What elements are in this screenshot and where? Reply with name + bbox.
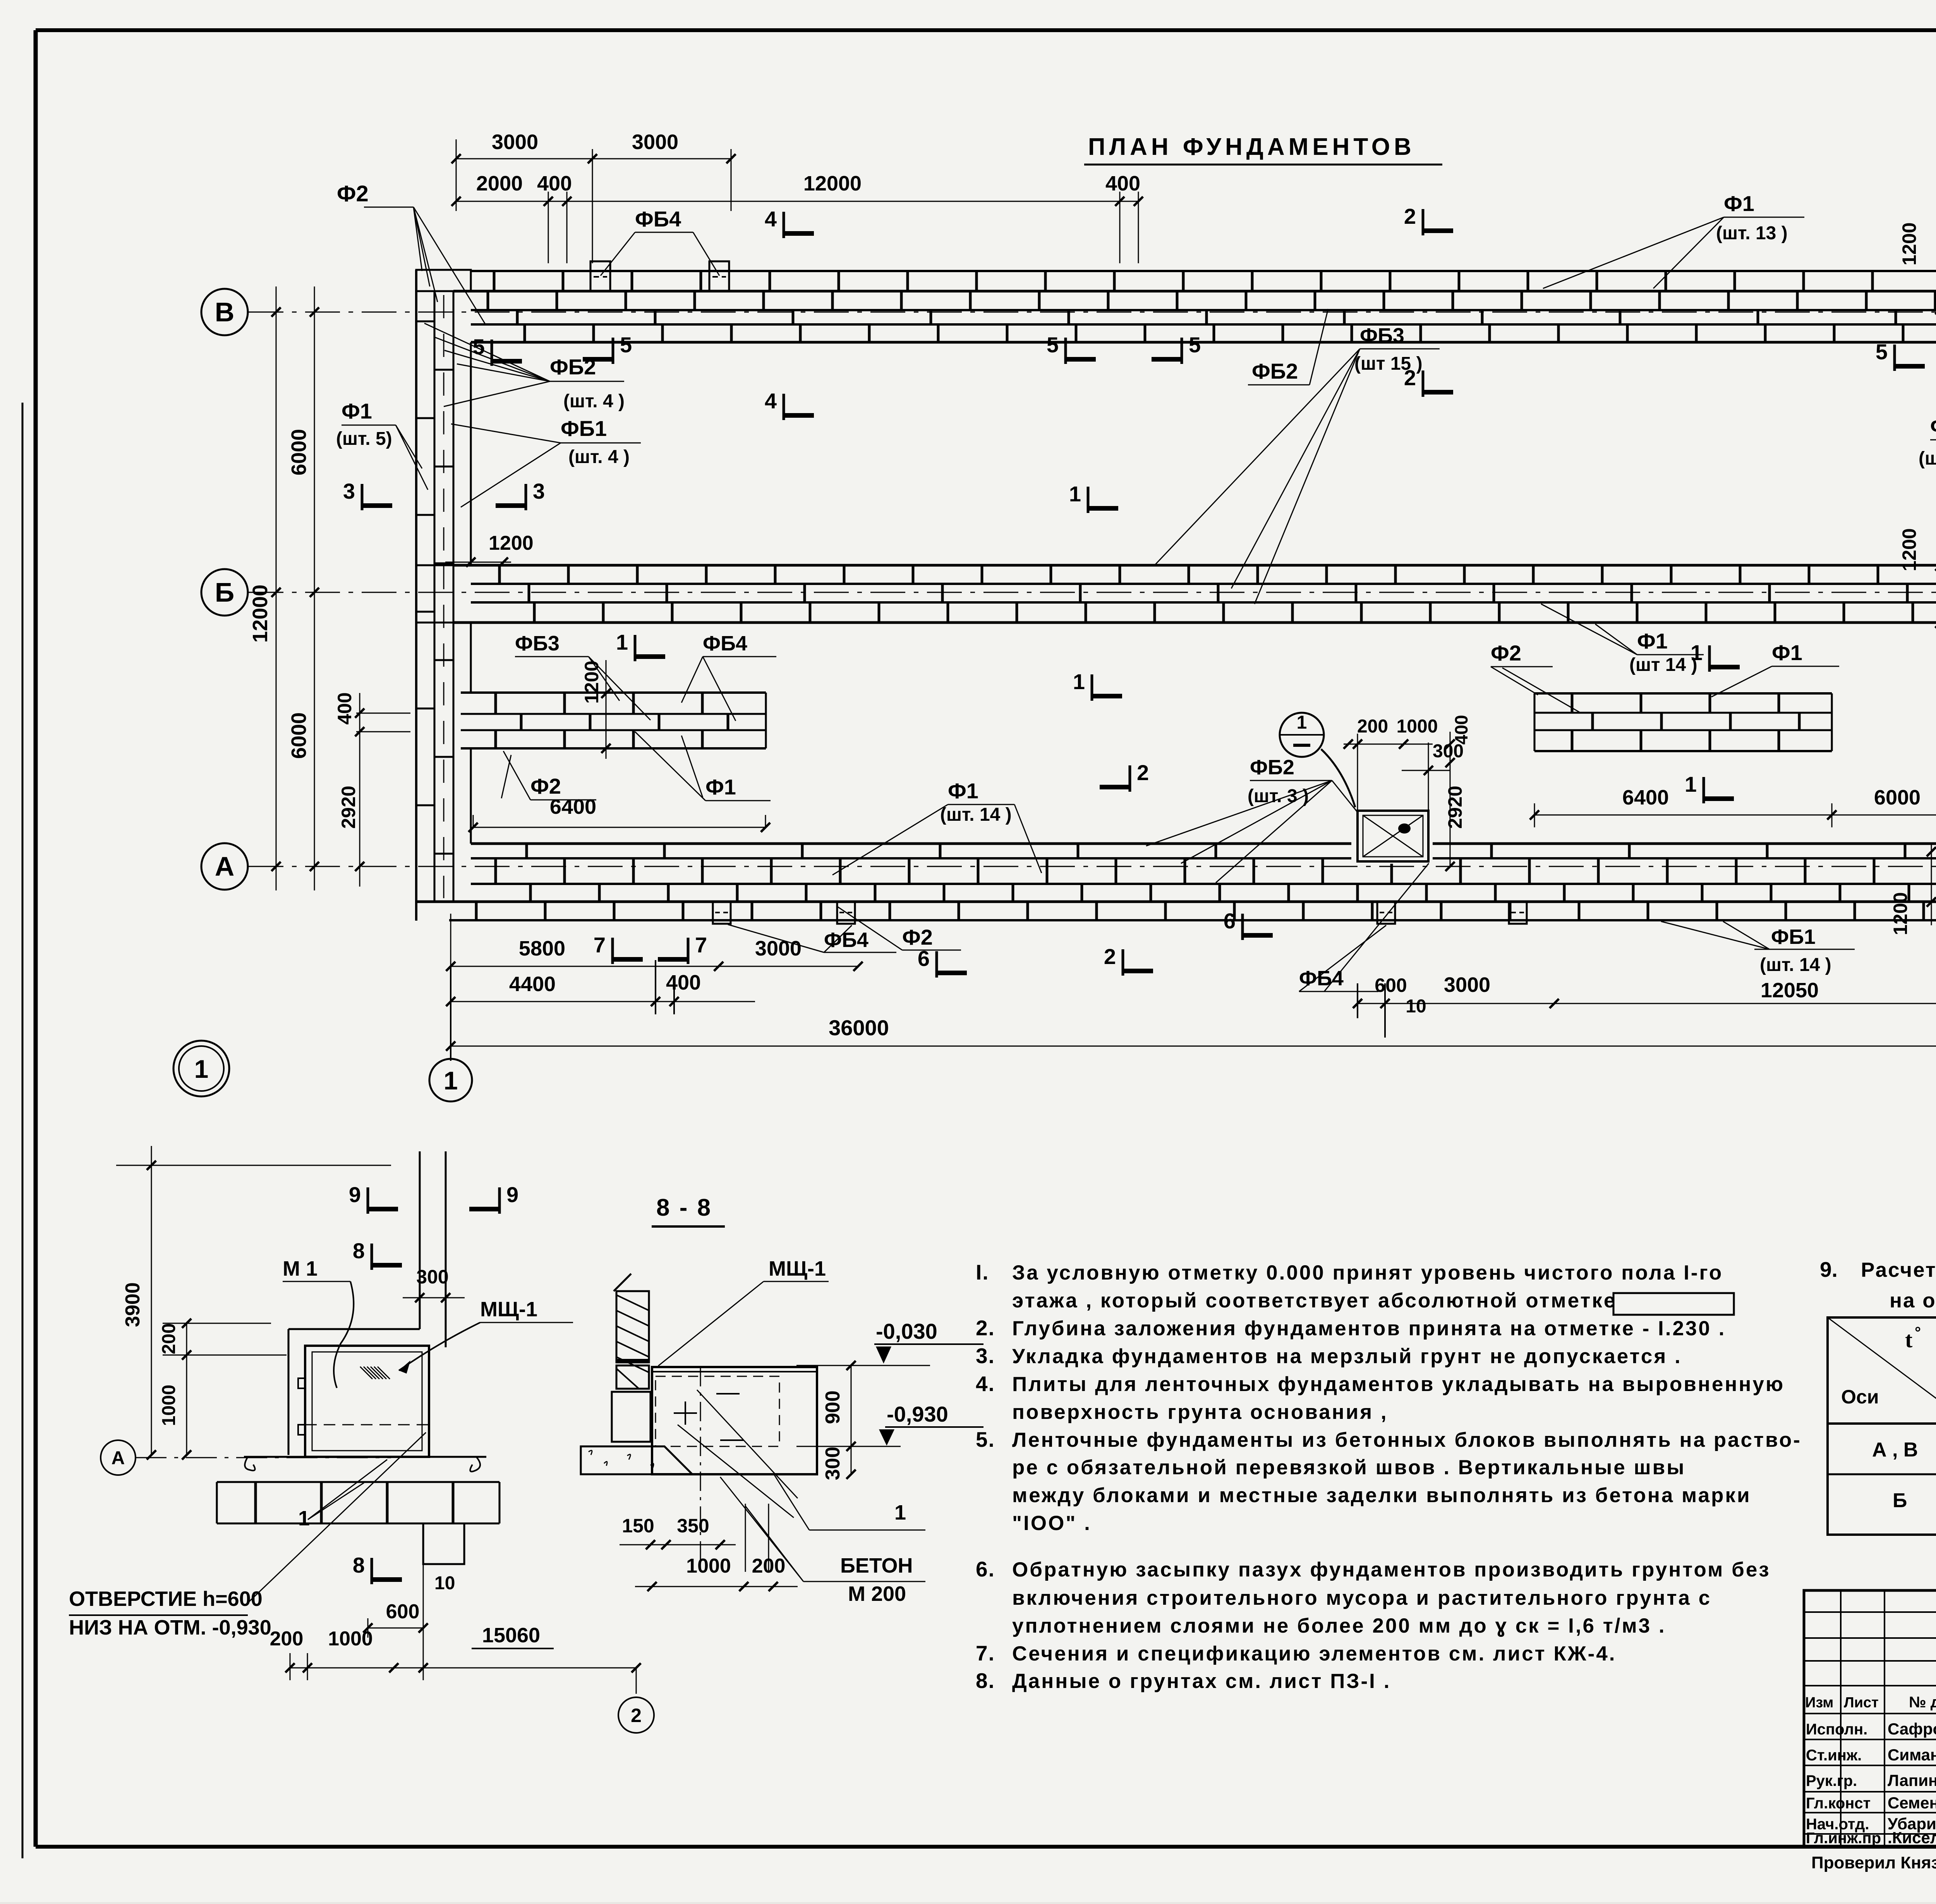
svg-text:между блоками и местные заделк: между блоками и местные заделки выполнят… — [1012, 1484, 1751, 1507]
svg-text:2: 2 — [1137, 760, 1149, 785]
svg-text:ФБ3: ФБ3 — [1360, 324, 1404, 347]
svg-text:1200: 1200 — [489, 532, 534, 554]
svg-text:36000: 36000 — [829, 1015, 889, 1040]
svg-text:Ф2: Ф2 — [1491, 641, 1521, 665]
svg-text:5.: 5. — [976, 1427, 995, 1451]
svg-text:2920: 2920 — [1444, 786, 1466, 828]
svg-text:4: 4 — [765, 207, 777, 231]
svg-text:6: 6 — [1224, 909, 1236, 933]
svg-text:НИЗ НА ОТМ. -0,930: НИЗ НА ОТМ. -0,930 — [69, 1616, 271, 1639]
svg-text:400: 400 — [1105, 172, 1140, 195]
svg-text:Изм: Изм — [1805, 1695, 1833, 1711]
svg-text:600: 600 — [1375, 974, 1407, 996]
svg-text:ФБ2: ФБ2 — [1250, 756, 1294, 779]
svg-text:ФБ2: ФБ2 — [1252, 359, 1298, 383]
svg-text:Рук.гр.: Рук.гр. — [1806, 1772, 1857, 1789]
svg-text:Глубина заложения фундаментов: Глубина заложения фундаментов принята на… — [1012, 1317, 1726, 1340]
svg-text:3.: 3. — [976, 1344, 995, 1368]
svg-text:Лапина: Лапина — [1888, 1771, 1936, 1789]
svg-text:Ф1: Ф1 — [1724, 191, 1754, 216]
svg-text:этажа , который соответствует: этажа , который соответствует абсолютной… — [1012, 1289, 1617, 1312]
svg-text:7.: 7. — [976, 1641, 995, 1665]
svg-text:уплотнением слоями не более 20: уплотнением слоями не более 200 мм до ɣ … — [1012, 1614, 1666, 1637]
svg-text:Проверил Князева: Проверил Князева — [1811, 1853, 1936, 1872]
svg-text:4.: 4. — [976, 1372, 995, 1396]
svg-text:(шт 5): (шт 5) — [1919, 448, 1936, 469]
svg-text:Семенов: Семенов — [1888, 1794, 1936, 1812]
svg-text:350: 350 — [677, 1515, 709, 1537]
svg-text:Укладка фундаментов на мерзлый: Укладка фундаментов на мерзлый грунт не … — [1012, 1345, 1682, 1368]
svg-text:600: 600 — [386, 1600, 420, 1623]
svg-text:12050: 12050 — [1761, 979, 1819, 1002]
svg-text:1: 1 — [1685, 772, 1697, 796]
svg-text:300: 300 — [822, 1447, 844, 1480]
svg-text:Ф1: Ф1 — [1637, 629, 1668, 653]
svg-text:М 1: М 1 — [283, 1257, 318, 1280]
svg-text:1: 1 — [616, 630, 628, 654]
svg-text:на отм. -0.33 принята :: на отм. -0.33 принята : — [1890, 1289, 1936, 1312]
svg-text:А: А — [215, 851, 235, 882]
svg-text:1: 1 — [444, 1066, 458, 1095]
svg-text:Ф1: Ф1 — [342, 399, 372, 423]
svg-text:ФБ1: ФБ1 — [1771, 925, 1816, 949]
svg-text:5: 5 — [1189, 333, 1201, 357]
svg-text:1000: 1000 — [686, 1555, 731, 1577]
svg-text:200: 200 — [1357, 716, 1388, 737]
svg-text:ФБ1: ФБ1 — [561, 416, 607, 441]
svg-text:7: 7 — [695, 933, 707, 957]
svg-text:ПЛАН ФУНДАМЕНТОВ: ПЛАН ФУНДАМЕНТОВ — [1088, 134, 1415, 160]
svg-text:включения строительного мусора: включения строительного мусора и растите… — [1012, 1587, 1711, 1609]
svg-text:Оси: Оси — [1841, 1386, 1879, 1408]
svg-text:12000: 12000 — [803, 172, 862, 195]
svg-text:5: 5 — [620, 333, 632, 357]
svg-text:МЩ-1: МЩ-1 — [769, 1257, 826, 1280]
svg-text:8: 8 — [353, 1238, 365, 1263]
svg-text:Ф2: Ф2 — [902, 925, 933, 949]
svg-text:4: 4 — [765, 389, 777, 413]
svg-text:15060: 15060 — [482, 1624, 540, 1647]
svg-text:(шт. 14 ): (шт. 14 ) — [1760, 955, 1831, 975]
svg-text:Обратную засыпку пазух фундаме: Обратную засыпку пазух фундаментов произ… — [1012, 1558, 1771, 1581]
svg-text:1200: 1200 — [1898, 528, 1920, 571]
svg-text:I.: I. — [976, 1260, 989, 1284]
svg-text:2: 2 — [631, 1705, 642, 1726]
svg-text:1000: 1000 — [159, 1385, 179, 1426]
svg-text:2000: 2000 — [476, 172, 523, 195]
svg-text:6.: 6. — [976, 1557, 995, 1581]
svg-text:Ф1: Ф1 — [948, 779, 978, 803]
svg-text:МЩ-1: МЩ-1 — [480, 1298, 537, 1321]
svg-text:3900: 3900 — [122, 1282, 144, 1327]
svg-text:Плиты для ленточных фундаменто: Плиты для ленточных фундаментов укладыва… — [1012, 1373, 1785, 1396]
svg-text:№ докум.: № докум. — [1909, 1694, 1936, 1711]
svg-text:-0,030: -0,030 — [876, 1319, 937, 1343]
svg-text:9: 9 — [349, 1182, 361, 1207]
svg-text:6400: 6400 — [550, 795, 596, 818]
svg-text:5: 5 — [1047, 333, 1059, 357]
svg-text:1: 1 — [1069, 482, 1081, 506]
svg-text:400: 400 — [334, 692, 355, 724]
svg-text:Б: Б — [215, 577, 234, 607]
svg-text:1200: 1200 — [1890, 892, 1911, 935]
svg-text:1: 1 — [1297, 712, 1307, 733]
svg-text:9: 9 — [506, 1182, 518, 1207]
svg-text:1: 1 — [194, 1055, 209, 1083]
svg-text:ФБ4: ФБ4 — [703, 632, 747, 655]
svg-text:10: 10 — [434, 1573, 455, 1594]
svg-text:6400: 6400 — [1622, 786, 1669, 809]
svg-text:400: 400 — [1451, 715, 1471, 745]
svg-text:5800: 5800 — [519, 937, 565, 960]
svg-text:Б: Б — [1893, 1489, 1907, 1512]
svg-text:200: 200 — [159, 1323, 179, 1354]
svg-text:6000: 6000 — [1874, 786, 1921, 809]
svg-text:ОТВЕРСТИЕ h=600: ОТВЕРСТИЕ h=600 — [69, 1587, 263, 1611]
svg-text:1: 1 — [894, 1501, 906, 1524]
svg-text:6000: 6000 — [287, 429, 311, 475]
svg-text:3000: 3000 — [755, 937, 802, 960]
svg-text:3000: 3000 — [492, 130, 538, 154]
svg-text:Ф2: Ф2 — [337, 181, 369, 206]
svg-text:поверхность грунта основания: поверхность грунта основания , — [1012, 1401, 1388, 1424]
svg-text:А: А — [112, 1448, 125, 1468]
svg-text:ре с обязательной перевязкой ш: ре с обязательной перевязкой швов . Верт… — [1012, 1456, 1686, 1479]
svg-text:Ст.инж.: Ст.инж. — [1806, 1747, 1862, 1764]
svg-text:1200: 1200 — [581, 660, 602, 703]
svg-text:t: t — [1905, 1327, 1913, 1352]
svg-text:3: 3 — [533, 479, 545, 503]
svg-text:-0,930: -0,930 — [887, 1402, 948, 1426]
svg-text:(шт. 13 ): (шт. 13 ) — [1716, 223, 1788, 244]
svg-text:(шт. 4 ): (шт. 4 ) — [568, 447, 630, 467]
svg-text:10: 10 — [1406, 996, 1426, 1017]
svg-text:900: 900 — [822, 1391, 844, 1424]
svg-text:(шт. 3 ): (шт. 3 ) — [1248, 786, 1309, 806]
svg-text:Ф2: Ф2 — [530, 774, 561, 798]
svg-text:ФБ2: ФБ2 — [550, 355, 596, 379]
svg-text:Лист: Лист — [1844, 1695, 1879, 1711]
svg-text:1: 1 — [1073, 669, 1085, 694]
svg-text:(шт. 4 ): (шт. 4 ) — [563, 391, 625, 412]
svg-text:Сафронеева: Сафронеева — [1888, 1720, 1936, 1738]
svg-text:Сечения и спецификацию элемент: Сечения и спецификацию элементов см. лис… — [1012, 1642, 1616, 1665]
svg-text:3: 3 — [343, 479, 355, 503]
svg-text:Симановская: Симановская — [1888, 1746, 1936, 1764]
svg-text:Гл.инж.пр: Гл.инж.пр — [1806, 1830, 1881, 1847]
svg-text:2.: 2. — [976, 1316, 995, 1340]
svg-text:2920: 2920 — [338, 786, 359, 828]
svg-text:ФБ3: ФБ3 — [515, 632, 560, 655]
svg-text:БЕТОН: БЕТОН — [840, 1554, 913, 1577]
svg-text:8: 8 — [353, 1553, 365, 1577]
svg-text:300: 300 — [416, 1266, 448, 1288]
svg-text:Расчетная нагрузка на фундамен: Расчетная нагрузка на фундаменты при рас… — [1861, 1259, 1936, 1281]
svg-text:В: В — [215, 297, 235, 327]
svg-text:°: ° — [1915, 1324, 1921, 1341]
svg-text:А , В: А , В — [1872, 1439, 1918, 1461]
svg-text:М 200: М 200 — [848, 1582, 906, 1606]
svg-text:Ф1: Ф1 — [705, 775, 736, 799]
svg-text:Исполн.: Исполн. — [1806, 1721, 1867, 1738]
svg-text:(шт. 5): (шт. 5) — [336, 429, 392, 449]
svg-text:6000: 6000 — [287, 712, 311, 759]
svg-text:Данные о грунтах см. лист ПЗ-I: Данные о грунтах см. лист ПЗ-I . — [1012, 1670, 1391, 1693]
svg-text:"IОО" .: "IОО" . — [1012, 1512, 1092, 1535]
svg-text:1200: 1200 — [1898, 222, 1920, 265]
svg-text:За условную отметку 0.000 при: За условную отметку 0.000 принят уровень… — [1012, 1261, 1723, 1284]
svg-text:3000: 3000 — [1444, 973, 1490, 997]
svg-text:200: 200 — [270, 1628, 304, 1650]
svg-text:400: 400 — [666, 971, 701, 994]
svg-text:Ф1: Ф1 — [1772, 640, 1802, 665]
svg-text:12000: 12000 — [249, 585, 272, 643]
svg-text:.Киселева: .Киселева — [1888, 1829, 1936, 1847]
svg-text:4400: 4400 — [509, 973, 556, 996]
svg-text:7: 7 — [594, 933, 606, 957]
svg-text:1000: 1000 — [1397, 716, 1438, 737]
svg-text:8.: 8. — [976, 1669, 995, 1693]
svg-text:(шт. 14 ): (шт. 14 ) — [940, 804, 1012, 825]
svg-text:2: 2 — [1404, 204, 1416, 228]
svg-text:ФБ4: ФБ4 — [635, 207, 681, 231]
svg-text:Ленточные фундаменты из бетонн: Ленточные фундаменты из бетонных блоков … — [1012, 1429, 1802, 1451]
svg-text:3000: 3000 — [632, 130, 678, 154]
svg-text:8 - 8: 8 - 8 — [656, 1194, 712, 1221]
svg-text:150: 150 — [622, 1515, 654, 1537]
svg-text:Ф1: Ф1 — [1930, 414, 1936, 438]
svg-text:(шт 15 ): (шт 15 ) — [1354, 353, 1423, 374]
svg-text:200: 200 — [752, 1555, 786, 1577]
svg-text:Гл.конст: Гл.конст — [1806, 1795, 1871, 1812]
svg-text:5: 5 — [1876, 340, 1888, 364]
svg-text:2: 2 — [1104, 944, 1116, 969]
svg-text:1: 1 — [298, 1507, 310, 1530]
svg-text:(шт 14 ): (шт 14 ) — [1629, 655, 1697, 675]
svg-text:9.: 9. — [1820, 1257, 1838, 1281]
svg-text:ФБ4: ФБ4 — [824, 928, 868, 952]
